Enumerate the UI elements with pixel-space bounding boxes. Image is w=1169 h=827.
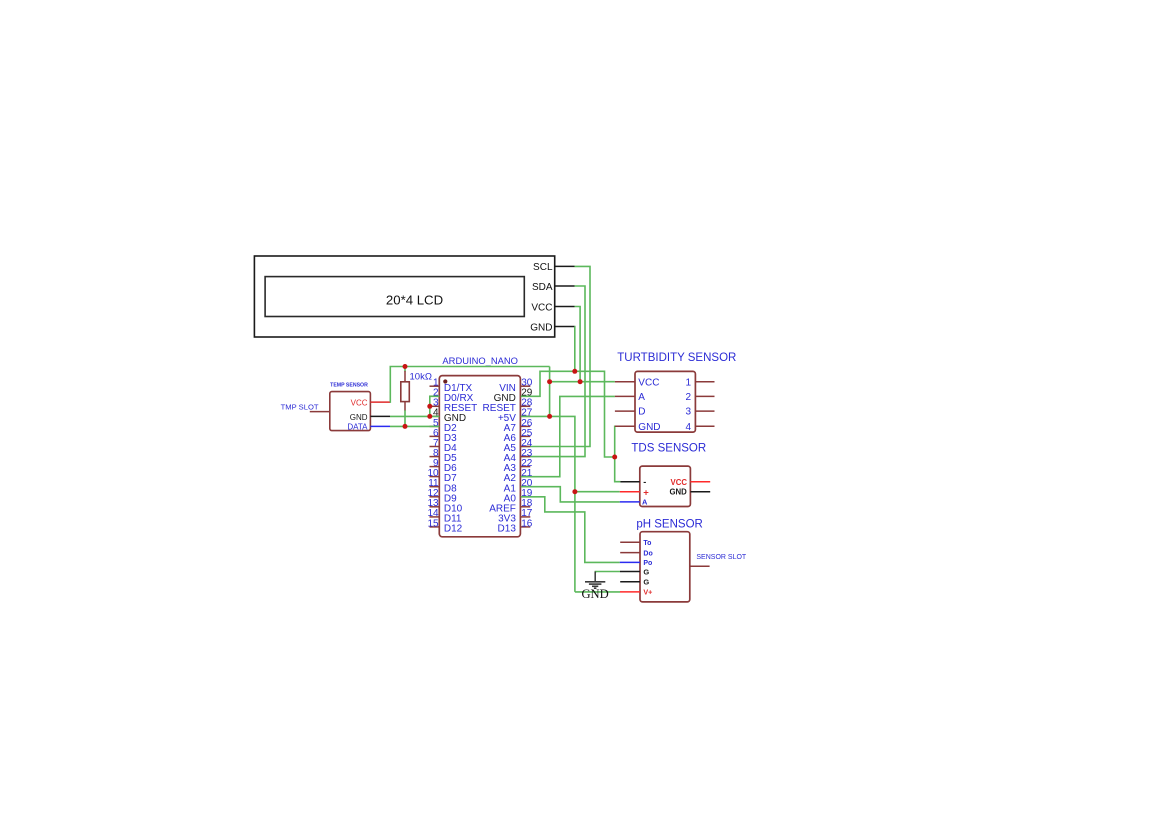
temp sensor body	[330, 392, 371, 431]
wire 5V to TDS plus	[575, 491, 620, 493]
ground bar 2	[589, 583, 602, 585]
wire 5V to pH V+	[575, 591, 620, 593]
turbidity right stub 2	[695, 395, 714, 397]
nano pin 16 stub	[520, 526, 530, 528]
svg-text:TMP SLOT: TMP SLOT	[281, 403, 319, 412]
nano pin 3 stub	[430, 405, 440, 407]
nano pin 13 stub	[430, 506, 440, 508]
svg-text:1: 1	[685, 377, 691, 388]
junction dot: 5V rail / TDS plus junction	[572, 489, 577, 494]
svg-text:D13: D13	[498, 524, 517, 535]
LCD GND stub	[555, 326, 575, 328]
nano pin 29 stub	[520, 395, 530, 397]
turbidity left stub VCC	[615, 381, 635, 383]
wire pin19 A0 to pH Po	[521, 497, 620, 563]
LCD inner display box	[265, 277, 524, 317]
svg-text:SENSOR SLOT: SENSOR SLOT	[696, 554, 747, 561]
wire +5V pin27 row	[521, 416, 575, 592]
junction dot: resistor top / VCC rail junction	[403, 364, 408, 369]
turbidity sensor body	[635, 371, 695, 432]
svg-text:3: 3	[685, 407, 691, 418]
wire SDA net: LCD SDA to Arduino pin23 A4	[521, 286, 585, 457]
svg-text:DATA: DATA	[347, 422, 368, 431]
nano pin 14 stub	[430, 516, 440, 518]
TDS VCC stub red right	[690, 481, 710, 483]
turbidity right stub 1	[695, 381, 714, 383]
nano pin 6 stub	[430, 435, 440, 437]
nano pin 18 stub	[520, 506, 530, 508]
nano pin 19 stub	[520, 496, 530, 498]
svg-text:G: G	[643, 578, 649, 587]
pin 1 marker dot	[443, 379, 447, 383]
nano pin 10 stub	[430, 476, 440, 478]
svg-text:VCC: VCC	[531, 302, 552, 313]
svg-text:ARDUINO_NANO: ARDUINO_NANO	[442, 355, 518, 366]
svg-text:GND: GND	[581, 587, 608, 601]
pH G2 stub black	[620, 581, 640, 583]
svg-text:GND: GND	[669, 488, 687, 497]
pH V+ stub red	[620, 591, 640, 593]
junction dot: DATA / resistor bottom junction	[403, 424, 408, 429]
nano pin 30 stub	[520, 385, 530, 387]
junction dot: GND rail / turbidity GND junction	[612, 455, 617, 460]
TDS A stub blue	[620, 501, 640, 503]
wire LCD VCC drop to 5V rail	[575, 307, 581, 382]
LCD module outer box	[254, 256, 554, 337]
nano pin 9 stub	[430, 466, 440, 468]
nano pin 7 stub	[430, 446, 440, 448]
svg-text:D12: D12	[444, 524, 463, 535]
pH G1 stub black	[620, 571, 640, 573]
svg-text:A: A	[638, 392, 645, 403]
svg-text:TDS SENSOR: TDS SENSOR	[631, 442, 706, 454]
temp GND stub (black)	[370, 415, 390, 417]
junction dot: 5V rail / LCD VCC junction	[578, 379, 583, 384]
nano pin 27 stub	[520, 415, 530, 417]
wire 5V rail to turbidity VCC	[550, 381, 615, 383]
junction dot: 5V rail junction A	[547, 379, 552, 384]
wire LCD GND drop to GND rail	[574, 327, 576, 372]
TDS plus stub red	[620, 491, 640, 493]
turbidity left stub A	[615, 395, 635, 397]
svg-text:GND: GND	[530, 322, 552, 333]
turbidity right stub 3	[695, 410, 714, 412]
svg-text:GND: GND	[638, 422, 660, 433]
TDS sensor body	[640, 466, 691, 506]
wire turbidity GND drop	[615, 426, 621, 481]
ground symbol stem	[594, 572, 596, 582]
nano pin 1 stub	[430, 385, 440, 387]
pH sensor slot stub	[690, 565, 710, 567]
pH Po stub blue	[620, 561, 640, 563]
turbidity left stub GND	[615, 425, 635, 427]
wire pin2-pin3-pin4 link	[430, 396, 440, 416]
Arduino Nano body U1	[439, 376, 520, 537]
nano pin 12 stub	[430, 496, 440, 498]
svg-text:TURTBIDITY SENSOR: TURTBIDITY SENSOR	[617, 352, 736, 364]
svg-text:-: -	[643, 477, 646, 487]
svg-text:SDA: SDA	[532, 282, 553, 293]
svg-text:SCL: SCL	[533, 262, 553, 273]
TDS minus stub black	[620, 481, 639, 483]
svg-text:pH SENSOR: pH SENSOR	[636, 518, 702, 530]
nano pin 28 stub	[520, 405, 530, 407]
wire SCL net: LCD SCL to Arduino pin24 A5	[521, 266, 590, 446]
pH To stub	[620, 541, 640, 543]
svg-text:TEMP SENSOR: TEMP SENSOR	[330, 383, 368, 389]
wire turbidity A to pin21 A2	[521, 396, 615, 476]
TMP SLOT stub	[310, 411, 330, 413]
TDS GND stub black right	[690, 491, 710, 493]
turbidity left stub D	[615, 410, 635, 412]
svg-text:2: 2	[685, 392, 691, 403]
turbidity right stub 4	[695, 425, 714, 427]
wire temp DATA to pin5 D2	[390, 425, 439, 427]
wire pin20 A1 to TDS A	[521, 487, 620, 502]
nano pin 23 stub	[520, 456, 530, 458]
nano pin 26 stub	[520, 425, 530, 427]
svg-text:VCC: VCC	[638, 377, 659, 388]
wire 5V rail down to +5V pin27	[549, 367, 551, 417]
junction dot: GND rail / LCD GND junction	[572, 369, 577, 374]
svg-text:V+: V+	[643, 588, 652, 597]
nano pin 2 stub	[430, 395, 440, 397]
nano pin 20 stub	[520, 486, 530, 488]
nano pin 24 stub	[520, 446, 530, 448]
svg-text:4: 4	[685, 422, 691, 433]
wire pH G to ground	[595, 572, 620, 574]
temp DATA stub (blue)	[370, 425, 390, 427]
wire temp VCC up to 5V rail top	[390, 367, 550, 403]
svg-text:D: D	[638, 407, 645, 418]
svg-text:15: 15	[427, 518, 439, 529]
LCD SCL stub	[555, 265, 575, 267]
wire temp GND to pin4	[390, 415, 439, 417]
svg-text:VCC: VCC	[351, 398, 368, 407]
nano pin 8 stub	[430, 456, 440, 458]
nano pin 4 stub	[430, 415, 440, 417]
nano pin 5 stub	[430, 425, 440, 427]
junction dot: GND pin4 junction	[427, 414, 432, 419]
ground bar 3	[592, 585, 598, 587]
svg-text:VCC: VCC	[671, 478, 688, 487]
junction dot: RESET pin3 junction	[427, 404, 432, 409]
svg-text:10kΩ: 10kΩ	[410, 372, 432, 383]
svg-text:G: G	[643, 567, 649, 576]
nano pin 11 stub	[430, 486, 440, 488]
wire GND29 net	[521, 371, 615, 457]
nano pin 25 stub	[520, 435, 530, 437]
LCD VCC stub	[555, 306, 575, 308]
svg-text:Po: Po	[643, 560, 652, 567]
nano pin 17 stub	[520, 516, 530, 518]
svg-text:20*4 LCD: 20*4 LCD	[386, 292, 443, 307]
pH sensor body	[640, 532, 690, 602]
junction dot: +5V pin27 junction	[547, 414, 552, 419]
nano pin 22 stub	[520, 466, 530, 468]
ground bar 4	[594, 587, 597, 589]
ground bar 1	[585, 581, 605, 583]
svg-text:Do: Do	[643, 550, 652, 557]
LCD SDA stub	[555, 285, 575, 287]
pH Do stub	[620, 552, 640, 554]
nano pin 21 stub	[520, 476, 530, 478]
svg-text:To: To	[643, 540, 651, 547]
resistor R1 10k leads top	[404, 367, 406, 372]
svg-text:GND: GND	[350, 413, 368, 422]
nano pin 15 stub	[430, 526, 440, 528]
svg-text:16: 16	[521, 518, 533, 529]
resistor R1 body	[401, 382, 410, 402]
temp VCC stub (red)	[370, 401, 390, 403]
resistor R1 lead bottom	[404, 402, 406, 411]
svg-text:A: A	[642, 498, 648, 507]
